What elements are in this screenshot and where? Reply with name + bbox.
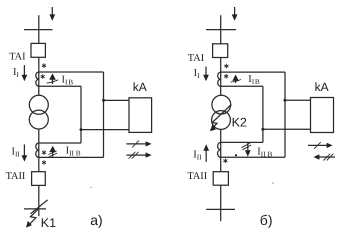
incoming line arrow 2 with double slash (right) [313,154,335,161]
wire: between circles and coil2 (left) [38,129,40,172]
wire: inner vertical x=81 (left) [80,86,82,143]
wire: outer vertical x=285 (right) [284,72,286,157]
TAII secondary winding coil (left) [36,143,39,158]
slash through feeder (left bottom) [31,200,48,214]
wire: inner vertical x=262.9 (right) [262,86,264,142]
current direction arrow into bus (left top) [49,7,55,21]
wire: coil2 bottom horizontal (left) [39,156,104,158]
polarity mark * TAI secondary (right) [224,74,228,79]
junction dot at (285,100.3) [284,99,287,102]
current arrow I_I downward (right) [203,67,209,82]
svg-text:III B: III B [257,147,272,159]
polarity mark * TAI primary (left) [42,63,46,68]
current arrow I_II upward (right) [203,144,209,162]
svg-text:IIB: IIB [62,74,74,86]
TAII secondary winding coil (right) [218,142,221,157]
wire: below TAII box (left) [38,185,40,216]
power transformer circles (left) [29,95,48,114]
bus bar (right) [206,29,236,31]
junction dot at (262.9,129.3) [261,128,264,131]
secondary current arrow I_IB with slash (right) [231,75,241,83]
outgoing line arrow 1 with slash (right) [308,142,333,149]
wire: coil1 top to outer vertical (left) [39,71,104,73]
wire: coil2 top horizontal (left) [39,142,81,144]
transformer TAI primary winding box (left) [31,43,45,57]
outgoing line arrow 2 with double slash (left) [126,152,151,159]
svg-text:kA: kA [133,80,147,94]
wire: tap to kA upper input (left) [104,99,130,101]
transformer TAII primary winding box (right) [213,172,228,186]
polarity mark * TAII primary (left) [42,160,46,165]
polarity mark * TAI secondary (left) [41,74,45,79]
wire: coil2 bottom horizontal (right) [221,156,285,158]
wire: below TAII box (right) [220,185,222,221]
wire: outer vertical x=103.5 (left) [103,72,105,157]
svg-text:III: III [193,150,202,162]
svg-text:TAI: TAI [188,53,205,64]
svg-text:II: II [194,68,201,80]
polarity mark * TAI primary (right) [224,64,228,69]
wire: between circles and coil2 (right) [220,129,222,171]
stray speck (left) [90,187,91,188]
TAI secondary winding coil (left) [36,72,39,86]
wire: feeder drop above bus (left) [38,15,40,43]
wire: tap to kA lower input (left) [81,129,129,131]
wire: feeder drop above bus (right) [220,15,222,44]
stray speck (right) [272,182,274,184]
svg-text:IIB: IIB [248,74,260,86]
secondary current arrow I_IIB downward with double slash (right) [242,143,252,157]
svg-text:TAII: TAII [187,171,207,182]
secondary current arrow I_IB with slash (left) [47,73,59,84]
svg-text:K2: K2 [232,116,247,130]
wire: line between box and coil (right) [220,58,222,96]
wire: coil2 top horizontal (right) [221,141,263,143]
polarity mark * TAII secondary (left) [42,150,46,155]
wire: line between box and coil (left) [38,57,40,95]
ammeter kA box (left) [129,98,152,133]
svg-text:б): б) [260,212,273,228]
junction dot at (81,129.6) [80,128,83,131]
TAI secondary winding coil (right) [218,72,221,86]
current arrow I_II downward (left) [22,144,28,161]
small dot mark near TAII coil (right) [235,154,237,156]
outgoing feeder bar (right bottom) [206,208,235,210]
ammeter kA box (right) [311,98,334,133]
svg-text:K1: K1 [41,216,56,230]
fault lightning arrow K1 (left bottom) [26,209,38,227]
wire: coil1 bottom to inner vertical (right) [221,85,263,87]
polarity mark * TAII primary (right) [223,159,227,164]
outgoing feeder bar (left bottom) [24,208,46,210]
svg-text:III B: III B [66,146,81,158]
svg-text:TAII: TAII [6,171,26,182]
power transformer circles (right) [212,95,231,114]
svg-text:TAI: TAI [9,52,26,63]
junction dot at (103.5,100.4) [102,99,105,102]
current direction arrow into bus (right top) [232,7,238,21]
wire: coil1 top to outer vertical (right) [221,71,285,73]
svg-text:III: III [12,146,21,158]
wire: coil1 bottom to inner vertical (left) [39,85,81,87]
wire: tap to kA upper input (right) [285,99,311,101]
svg-text:kA: kA [315,80,329,94]
bus bar (left) [24,29,53,31]
secondary current arrow I_IIB with double slash (left) [48,146,57,157]
wire: tap to kA lower input (right) [263,128,311,130]
transformer TAI primary winding box (right) [213,44,228,58]
fault lightning arrow K2 through transformer (right) [210,105,232,132]
outgoing line arrow 1 with slash (left) [126,141,151,148]
svg-text:a): a) [90,212,102,228]
svg-text:II: II [13,67,20,79]
transformer TAII primary winding box (left) [32,172,46,186]
current arrow I_I downward (left) [22,65,28,81]
